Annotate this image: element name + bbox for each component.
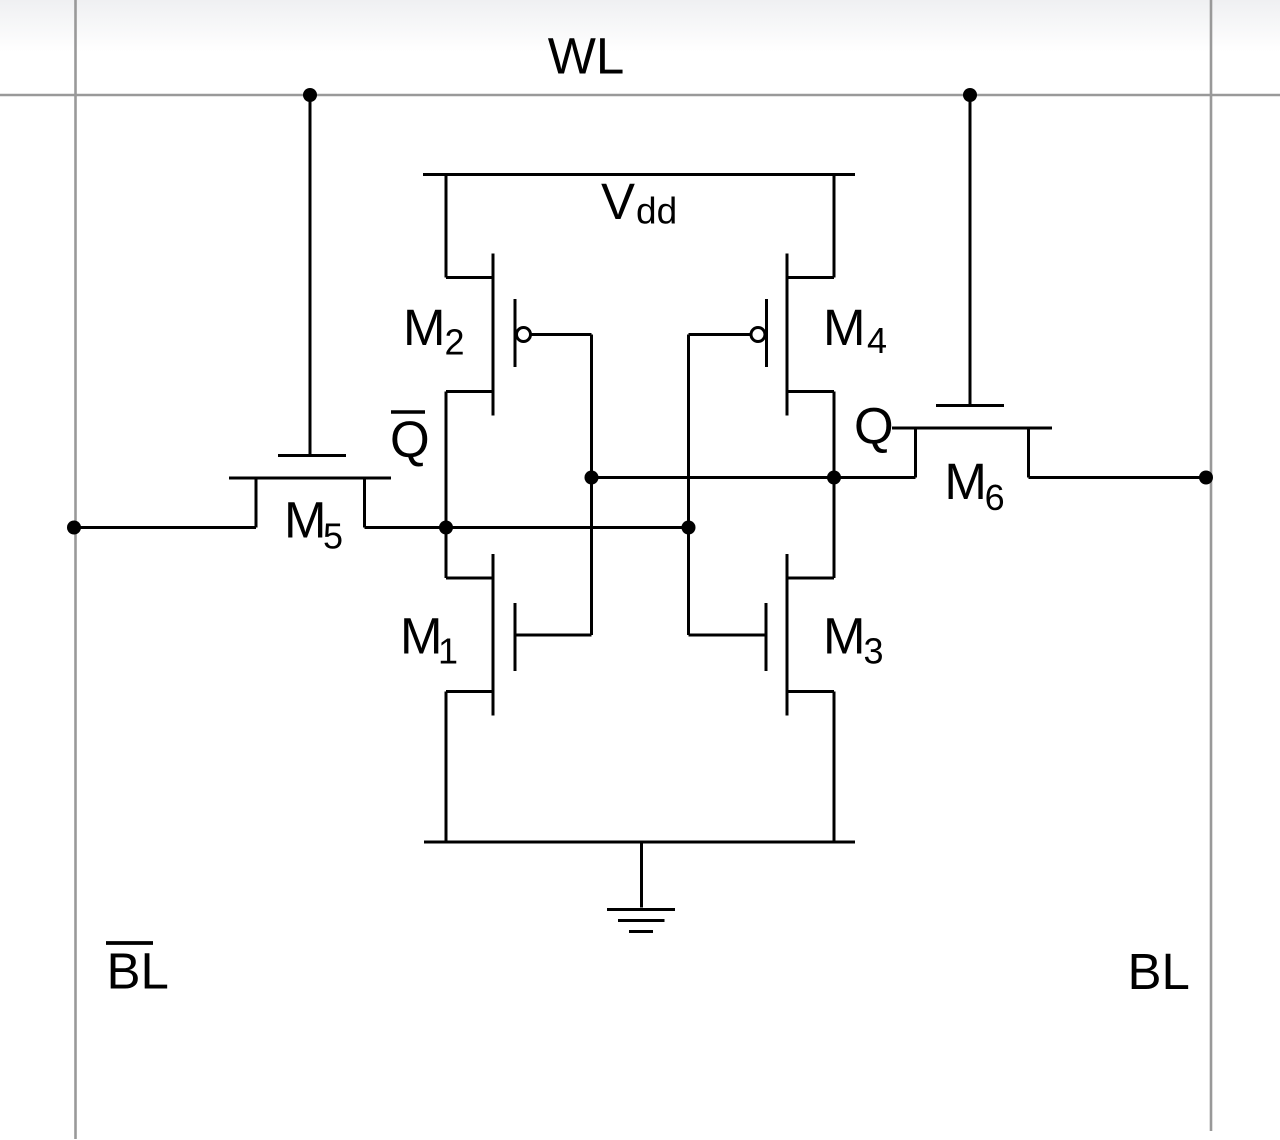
svg-text:6: 6 <box>985 477 1005 518</box>
svg-text:3: 3 <box>864 631 884 672</box>
svg-text:M: M <box>400 608 442 665</box>
svg-text:V: V <box>601 173 635 230</box>
svg-text:1: 1 <box>438 631 458 672</box>
svg-text:5: 5 <box>323 516 343 557</box>
svg-text:M: M <box>403 299 445 356</box>
svg-text:M: M <box>284 492 326 549</box>
svg-text:4: 4 <box>867 320 887 361</box>
svg-text:dd: dd <box>636 191 677 232</box>
svg-text:M: M <box>944 453 986 510</box>
svg-text:Q: Q <box>390 411 430 468</box>
svg-text:BL: BL <box>1128 943 1190 1000</box>
svg-text:WL: WL <box>548 28 625 85</box>
svg-text:Q: Q <box>854 398 894 455</box>
svg-text:2: 2 <box>445 322 465 363</box>
svg-text:BL: BL <box>107 943 169 1000</box>
svg-text:M: M <box>823 299 865 356</box>
svg-text:M: M <box>823 608 865 665</box>
